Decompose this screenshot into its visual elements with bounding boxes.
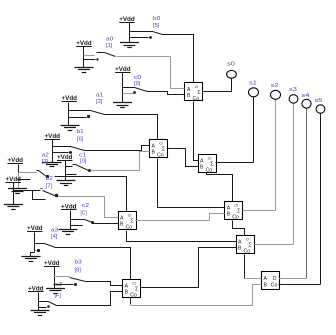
svg-text:[1]: [1]: [106, 43, 113, 49]
ground for b3: [46, 289, 65, 294]
svg-text:B: B: [238, 246, 242, 252]
svg-text:s3: s3: [289, 87, 297, 93]
label b3 [8] for b3: [75, 260, 82, 274]
label c3 [F] for c3: [55, 282, 63, 299]
label b1 [6] for b1: [77, 129, 84, 142]
switch c1 (down, output 0): [66, 165, 92, 175]
full adder U4 (bit2 stage1): [119, 212, 137, 231]
full adder U5 (bit2 stage2): [225, 202, 243, 221]
svg-text:Σ: Σ: [210, 161, 213, 167]
wire U6 Co pin stub: [244, 255, 246, 279]
wire U4 sum to U5 B: [136, 214, 225, 221]
ground for c3: [31, 311, 50, 316]
wire s2 riser: [275, 100, 277, 211]
label b2 [7] for b2: [46, 176, 53, 190]
power +Vdd for b0: [119, 16, 135, 23]
output pin s0 connector: [227, 70, 237, 78]
wire s4 riser: [306, 109, 308, 279]
wire b0 output to U1 Ci(top): [163, 35, 194, 83]
svg-text:[5]: [5]: [153, 23, 160, 29]
wire U3 Co to U5 Ci(top): [207, 173, 233, 202]
ground for c1: [57, 181, 76, 186]
svg-text:Co: Co: [244, 249, 251, 255]
svg-text:B: B: [152, 150, 156, 156]
switch b2 (down, output 0): [14, 189, 59, 200]
svg-text:B: B: [264, 283, 268, 289]
wire c3 output to U7 B: [57, 292, 123, 306]
output pin s5 connector: [316, 105, 325, 113]
svg-text:b0: b0: [153, 16, 160, 22]
svg-text:Co: Co: [157, 153, 164, 159]
ground for b1: [43, 163, 62, 167]
svg-text:[8]: [8]: [75, 268, 82, 274]
svg-text:+Vdd: +Vdd: [27, 225, 43, 232]
svg-text:Σ: Σ: [248, 242, 251, 248]
switch b0 (up, output 1): [130, 32, 163, 39]
svg-text:Σ: Σ: [130, 218, 133, 224]
wire U6 sum to s3: [254, 244, 294, 246]
svg-text:a0: a0: [106, 37, 113, 43]
svg-text:Co: Co: [130, 293, 137, 299]
label b0 [5] for b0: [153, 16, 160, 29]
svg-text:Σ: Σ: [135, 286, 138, 292]
svg-text:[9]: [9]: [134, 81, 141, 87]
svg-text:Ci: Ci: [128, 214, 132, 218]
svg-text:s4: s4: [302, 93, 310, 99]
label a3 [4] for a3: [51, 228, 58, 241]
wire s4 stem: [306, 107, 308, 109]
svg-text:A: A: [125, 283, 129, 289]
svg-text:a2: a2: [42, 153, 49, 159]
power +Vdd for c0: [115, 66, 131, 73]
power +Vdd for a3: [27, 225, 43, 232]
svg-text:A: A: [152, 143, 156, 149]
label s4: [302, 93, 310, 99]
ground for a0: [75, 68, 94, 73]
svg-text:+Vdd: +Vdd: [115, 66, 131, 73]
wire +Vdd-to-ground rail of a3: [34, 233, 36, 253]
wire s2 stem: [275, 98, 277, 100]
label a0 [1] for a0: [106, 37, 113, 50]
svg-text:Σ: Σ: [237, 208, 240, 214]
ground for a2: [8, 189, 27, 194]
wire +Vdd-to-ground rail of c0: [122, 73, 124, 103]
wire +Vdd-to-ground rail of a1: [68, 103, 70, 126]
svg-text:Co: Co: [193, 96, 200, 102]
full adder U3 (bit1 stage2): [199, 155, 217, 174]
wire +Vdd-to-ground rail of b1: [52, 140, 54, 163]
svg-text:A: A: [264, 276, 268, 282]
svg-text:B: B: [227, 212, 231, 218]
wire b1 output to U2 A: [85, 146, 150, 151]
svg-text:b3: b3: [75, 260, 82, 266]
power +Vdd for c1: [57, 154, 73, 161]
svg-text:Ci: Ci: [208, 157, 212, 161]
wire U2 sum to U3 B: [167, 149, 199, 167]
svg-text:b1: b1: [77, 129, 84, 135]
svg-text:D: D: [273, 276, 277, 282]
wire +Vdd-to-ground rail of b2: [13, 183, 15, 205]
power +Vdd for c3: [28, 285, 44, 292]
label c2 [C] for c2: [81, 203, 90, 217]
svg-text:c2: c2: [82, 203, 89, 209]
svg-text:A: A: [200, 158, 204, 164]
wire U1 Co to U3 A: [194, 102, 199, 161]
wire U8 Co to s5: [279, 284, 321, 286]
wire s1 riser: [253, 97, 255, 163]
wire +Vdd-to-ground rail of b0: [129, 23, 131, 43]
svg-text:Co: Co: [271, 283, 278, 289]
svg-text:+Vdd: +Vdd: [44, 260, 60, 267]
ground for c0: [113, 103, 132, 108]
label a2 [3] for a2: [42, 153, 49, 166]
label c0 [9] for c0: [134, 75, 141, 87]
switch b1 (up, output 1): [53, 147, 85, 155]
label c1 [0] for c1: [79, 153, 87, 165]
wire U7 Co pin stub: [130, 298, 132, 305]
power +Vdd for b3: [44, 260, 60, 267]
svg-text:b2: b2: [46, 176, 53, 182]
wire s3 riser: [293, 104, 295, 245]
wire b2 output to U4 A: [59, 197, 119, 218]
wire s5 riser: [320, 114, 322, 285]
svg-text:s1: s1: [249, 81, 257, 87]
switch b3 (up, output 1): [54, 277, 86, 287]
svg-text:[7]: [7]: [46, 184, 53, 190]
label s0: [227, 62, 235, 68]
full adder U7 (bit3 stage1): [123, 280, 141, 299]
half adder U8 (final half adder): [262, 272, 280, 290]
svg-text:+Vdd: +Vdd: [45, 133, 61, 140]
wire s3 stem: [293, 102, 295, 104]
wire +Vdd-to-ground rail of c3: [38, 293, 40, 311]
switch c3 (up, output 1): [39, 302, 57, 308]
svg-text:c3: c3: [55, 282, 62, 288]
ground for b0: [120, 43, 139, 48]
svg-text:[2]: [2]: [96, 99, 103, 105]
wire U7 sum to U6 B: [141, 248, 237, 288]
wire a3 ground link: [31, 253, 35, 257]
wire a1 output to U2 Ci(top): [105, 115, 158, 140]
svg-text:B: B: [200, 165, 204, 171]
wire a3 output to U7 Ci(top): [56, 248, 131, 280]
wire U5 sum to s2: [243, 210, 276, 212]
wire b3 output to U7 A: [86, 282, 123, 286]
power +Vdd for a1: [62, 95, 78, 102]
svg-text:s5: s5: [315, 98, 323, 104]
switch a2 (up, output 1): [19, 171, 50, 180]
full adder U2 (bit1 stage1): [150, 140, 168, 159]
power +Vdd for a2: [8, 157, 24, 164]
svg-text:+Vdd: +Vdd: [57, 154, 73, 161]
ground for a1: [61, 126, 80, 131]
svg-text:Σ: Σ: [197, 90, 200, 96]
wire s5 stem: [320, 112, 322, 114]
svg-text:+Vdd: +Vdd: [6, 176, 22, 183]
wire U8 D sum to s4: [279, 278, 307, 280]
svg-text:[4]: [4]: [51, 234, 58, 240]
wire a2 rail lower segment: [18, 173, 20, 189]
switch c2 (up, output 1): [71, 220, 95, 226]
switch a1 (up, output 1): [69, 111, 105, 119]
svg-text:Co: Co: [126, 225, 133, 231]
wire +Vdd-to-ground rail of b3: [54, 267, 56, 289]
svg-text:B: B: [187, 93, 191, 99]
svg-text:A: A: [187, 87, 191, 93]
wire +Vdd-to-ground rail of a0: [83, 47, 85, 68]
full adder U6 (bit3 stage2): [237, 236, 255, 255]
ground for c2: [59, 230, 78, 235]
svg-text:[0]: [0]: [80, 159, 87, 165]
wire s1 stem: [253, 96, 255, 98]
wire U3 sum to s1: [216, 162, 254, 164]
svg-text:Co: Co: [232, 215, 239, 221]
svg-text:+Vdd: +Vdd: [119, 16, 135, 23]
wire +Vdd-to-ground rail of a2: [18, 165, 20, 173]
wire a2 output to U4 Ci(top): [55, 177, 127, 212]
wire c1 output to U2 B: [91, 152, 150, 171]
wire U2 Co to U5 A: [158, 159, 225, 208]
label s1: [249, 81, 257, 87]
svg-text:[3]: [3]: [42, 159, 49, 165]
label a1 [2] for a1: [96, 93, 103, 106]
power +Vdd for a0: [76, 40, 92, 47]
wire +Vdd-to-ground rail of c1: [65, 161, 67, 181]
svg-text:Ci: Ci: [246, 238, 250, 242]
svg-text:A: A: [120, 215, 124, 221]
svg-text:a1: a1: [96, 93, 103, 99]
switch a3 (up, output 1): [35, 244, 56, 253]
wire +Vdd-to-ground rail of c2: [70, 211, 72, 230]
svg-text:s2: s2: [271, 83, 279, 89]
output pin s3 connector: [289, 95, 298, 103]
full adder U1 (bit0 stage1): [185, 83, 203, 103]
wire U1 sum to s0: [203, 91, 232, 93]
svg-text:a3: a3: [51, 228, 58, 234]
ground for a3: [22, 257, 41, 262]
svg-text:B: B: [125, 290, 129, 296]
power +Vdd for b2: [6, 176, 22, 183]
output pin s2 connector: [271, 90, 281, 99]
svg-text:Ci: Ci: [132, 282, 136, 286]
wire U6 Co to U8 A: [245, 278, 262, 280]
wire U4 Co to U6 A: [127, 231, 237, 242]
svg-text:[F]: [F]: [55, 293, 62, 299]
svg-text:B: B: [120, 222, 124, 228]
label s5: [315, 98, 323, 104]
wire s0 stem: [231, 78, 233, 91]
ground for b2: [4, 205, 23, 210]
power +Vdd for c2: [61, 203, 77, 210]
svg-text:Ci: Ci: [195, 85, 199, 89]
switch a0 (up, output 0): [84, 53, 116, 61]
switch c0 (up, output 1): [123, 88, 148, 94]
wire a0 output to U1 A: [117, 57, 185, 89]
wire c0 output to U1 B: [148, 92, 185, 95]
label s3: [289, 87, 297, 93]
output pin s1 connector: [249, 88, 259, 97]
label s2: [271, 83, 279, 89]
output pin s4 connector: [302, 99, 311, 108]
svg-text:s0: s0: [227, 62, 235, 68]
svg-text:Ci: Ci: [235, 204, 239, 208]
svg-text:A: A: [238, 239, 242, 245]
svg-text:Ci: Ci: [159, 142, 163, 146]
wire c2 output to U4 B: [93, 223, 119, 225]
power +Vdd for b1: [45, 133, 61, 140]
wire U7 Co to U8 B: [131, 285, 262, 306]
svg-text:Σ: Σ: [162, 146, 165, 152]
svg-text:A: A: [227, 205, 231, 211]
wire U5 Co to U6 Ci(top): [233, 221, 245, 236]
svg-text:[6]: [6]: [77, 137, 84, 143]
svg-text:[C]: [C]: [81, 211, 88, 217]
